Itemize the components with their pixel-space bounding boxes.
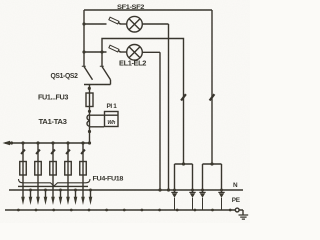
socket leg dots on N: [173, 189, 176, 192]
N line: [9, 189, 243, 191]
switch QS1 pole: [101, 52, 103, 67]
socket symbols: [171, 192, 224, 197]
brace FU4-FU18: [19, 179, 91, 186]
junction dot below QS: [88, 87, 91, 90]
meter PI1 box: [105, 112, 119, 127]
fuse FU7: [35, 162, 42, 176]
switch QS contact ticks: [82, 65, 104, 67]
wire lamp EL2 to corner: [142, 51, 160, 53]
fuse FU4: [20, 162, 27, 176]
distribution line: [18, 185, 88, 187]
fuse FU16: [80, 162, 87, 176]
switch SF2 blade: [109, 45, 119, 52]
switch QS bottom bridge: [84, 80, 111, 143]
wire rail to socket group 1: [102, 39, 184, 165]
fuse FU1-FU3: [86, 93, 93, 107]
socket legs group 2: [203, 164, 222, 193]
wire switch to lamp EL2: [120, 51, 127, 53]
feeder switch tick 2: [36, 150, 40, 154]
lamp EL2: [127, 45, 143, 61]
junction dot branch1: [82, 22, 85, 25]
feeder switch tick 3: [51, 150, 55, 154]
wire main vertical upper: [83, 10, 85, 67]
bus tap dots: [21, 141, 24, 144]
ground symbol: [239, 215, 249, 219]
contact tick on feed 2: [210, 94, 215, 100]
fuse FU10: [50, 162, 57, 176]
junction dot main 1: [88, 130, 91, 133]
socket stems to PE: [175, 198, 222, 210]
lamp EL1: [127, 16, 143, 32]
socket legs group 1: [175, 164, 193, 193]
dots EL returns on N: [158, 188, 161, 191]
bus arrow dot: [10, 141, 13, 144]
feeder arrowheads: [21, 197, 25, 205]
switch QS1-QS2 blades: [84, 67, 111, 80]
bus arrow left: [3, 141, 11, 146]
wire EL2 return vertical: [159, 52, 161, 190]
bus horizontal: [5, 142, 90, 144]
feeder drops with switch ticks: [23, 143, 83, 198]
wire branch 1 to switch: [84, 23, 107, 25]
fuse FU13: [65, 162, 72, 176]
PE line: [5, 209, 243, 211]
open circle on PE: [235, 208, 239, 212]
wire switch to lamp EL1: [120, 23, 127, 25]
wire top horizontal: [84, 9, 212, 11]
feeder switch tick 1: [21, 150, 25, 154]
switch SF1 blade: [109, 17, 119, 24]
contact tick on feed 1: [181, 94, 186, 100]
socket group bar 2: [203, 163, 222, 165]
current transformer TA1-TA3: [87, 115, 104, 127]
junction dot rail: [100, 50, 103, 53]
socket feed dots: [182, 162, 185, 165]
neutral arrow stems: [31, 190, 91, 198]
PE end corner down: [242, 210, 244, 215]
feeder switch tick 4: [66, 150, 70, 154]
junction dot branch2: [82, 50, 85, 53]
wire lamp EL1 to corner: [142, 23, 168, 25]
junction dot below FU1: [88, 110, 91, 113]
wire right vertical to socket group 2: [211, 10, 213, 164]
PE line dots: [17, 209, 20, 212]
socket group bar 1: [175, 163, 193, 165]
wire branch 2 to switch: [84, 51, 107, 53]
neutral line dots: [29, 189, 32, 192]
feeder switch tick 5: [81, 150, 85, 154]
wire EL1 return vertical: [168, 24, 170, 190]
